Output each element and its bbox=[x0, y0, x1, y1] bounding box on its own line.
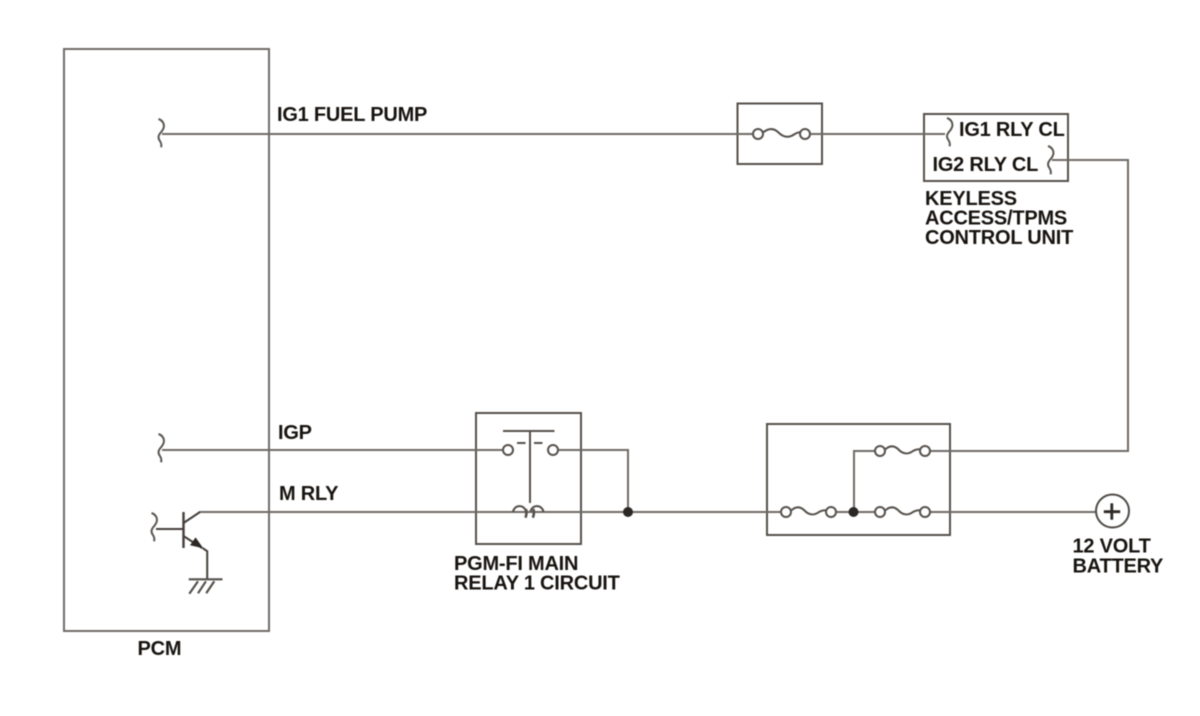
svg-text:M RLY: M RLY bbox=[279, 483, 339, 505]
svg-text:IG1 RLY CL: IG1 RLY CL bbox=[959, 119, 1065, 141]
svg-text:PCM: PCM bbox=[138, 638, 182, 660]
svg-text:IGP: IGP bbox=[278, 422, 312, 444]
svg-text:RELAY 1 CIRCUIT: RELAY 1 CIRCUIT bbox=[454, 573, 620, 595]
svg-text:12 VOLT: 12 VOLT bbox=[1073, 535, 1151, 557]
svg-text:IG2 RLY CL: IG2 RLY CL bbox=[933, 154, 1039, 176]
svg-text:CONTROL UNIT: CONTROL UNIT bbox=[925, 227, 1073, 249]
svg-text:BATTERY: BATTERY bbox=[1073, 555, 1165, 577]
svg-text:IG1 FUEL PUMP: IG1 FUEL PUMP bbox=[277, 104, 427, 126]
